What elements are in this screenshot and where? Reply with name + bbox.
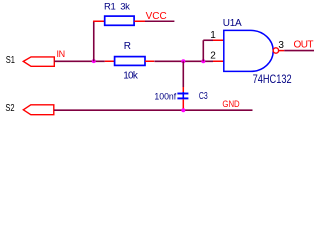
node junction capacitor branch: [181, 59, 185, 63]
wire vertical up to R1: [93, 21, 95, 61]
svg-text:U1A: U1A: [223, 18, 242, 29]
capacitor C3 bottom plate: [177, 97, 188, 99]
wire output net: [284, 50, 314, 52]
svg-text:1: 1: [210, 30, 216, 41]
resistor R1 body: [105, 16, 134, 25]
wire S2 to GND (bottom net): [54, 109, 253, 111]
node junction gate pin1 branch: [201, 59, 205, 63]
wire horizontal pin1 stub: [203, 39, 213, 41]
wire R to gate input (net): [154, 60, 213, 62]
port S1: [23, 57, 54, 66]
wire vertical to pin 1: [202, 40, 204, 61]
NAND gate U1A body: [224, 30, 273, 71]
capacitor C3 top pin: [182, 87, 184, 92]
resistor R left pin: [105, 60, 115, 62]
svg-text:R: R: [124, 41, 131, 52]
output inverter bubble: [273, 48, 278, 53]
pin 1 of U1A: [213, 39, 224, 41]
svg-text:R1: R1: [104, 1, 115, 12]
wire S1 to R pin (net IN): [54, 60, 104, 62]
svg-text:10k: 10k: [123, 71, 139, 82]
resistor R1 left pin: [93, 20, 105, 22]
svg-text:74HC132: 74HC132: [253, 72, 292, 86]
svg-text:VCC: VCC: [146, 11, 167, 22]
resistor R1 right pin: [134, 20, 145, 22]
svg-text:S1: S1: [6, 55, 16, 66]
resistor R right pin: [145, 60, 154, 62]
capacitor C3 top plate: [177, 93, 188, 95]
svg-text:2: 2: [210, 51, 216, 62]
svg-text:OUT: OUT: [294, 40, 314, 51]
svg-text:3: 3: [278, 40, 284, 51]
pin 2 of U1A: [213, 60, 224, 62]
svg-text:IN: IN: [57, 49, 65, 59]
svg-text:S2: S2: [5, 103, 15, 114]
capacitor C3 bottom pin: [182, 99, 184, 110]
svg-text:100nf: 100nf: [154, 92, 176, 103]
node junction capacitor to bottom net: [181, 108, 185, 112]
capacitor C3 top lead stub: [182, 92, 184, 99]
node junction at R1 branch: [92, 59, 96, 63]
pin 3 of U1A: [279, 50, 285, 52]
svg-text:C3: C3: [199, 91, 208, 102]
power port VCC bar: [145, 20, 174, 22]
port S2: [23, 105, 54, 115]
svg-text:3k: 3k: [120, 1, 130, 12]
wire capacitor branch vertical: [182, 61, 184, 87]
resistor R body: [115, 57, 145, 66]
svg-text:GND: GND: [222, 99, 239, 110]
